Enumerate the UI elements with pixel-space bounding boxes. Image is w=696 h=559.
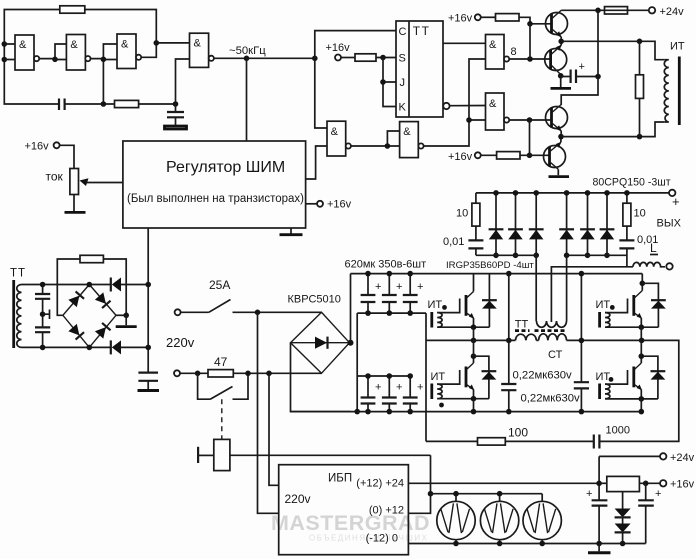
terminal + out	[669, 190, 675, 196]
capacitor 0,01 (left snubber)	[475, 226, 477, 255]
resistor R (+24v)	[605, 7, 628, 14]
gate lead (BR)	[605, 370, 628, 384]
svg-text:L: L	[650, 241, 657, 255]
wire: secondary lead 1	[535, 255, 537, 321]
wire: bridge plus up to cap bank	[350, 274, 352, 343]
ground (PWM bottom)	[290, 228, 292, 235]
wiper arrow	[84, 182, 123, 184]
wire: bridge minus to bottom rail	[291, 343, 351, 412]
wire: node up to TT C pin	[315, 31, 396, 59]
IGBT Q6	[465, 367, 468, 388]
terminal (mains N)	[174, 370, 180, 376]
terminal +16v (bottom)	[660, 480, 666, 486]
resistor R (Q1 base)	[481, 16, 496, 18]
transformer CT core	[535, 329, 566, 332]
wire to resistor 47	[180, 372, 208, 374]
svg-text:+: +	[396, 281, 402, 293]
gate transformer core (BL)	[430, 384, 433, 400]
bridge KBPC5010 diode symbol	[315, 337, 327, 349]
wire: N line to bridge bottom	[233, 372, 321, 374]
IGBT Q8	[632, 367, 635, 388]
emitter/coil bottom lead (TL)	[437, 326, 489, 328]
svg-text:(Был выполнен на транзисторах): (Был выполнен на транзисторах)	[127, 193, 304, 205]
svg-text:&: &	[121, 39, 129, 51]
gate transformer core (TL)	[430, 312, 433, 328]
dashed mechanical link	[221, 399, 223, 439]
IGBT Q7	[632, 295, 635, 316]
wire: bridge left node loop with resistor	[57, 259, 126, 315]
svg-text:ТТ: ТТ	[515, 319, 529, 331]
svg-text:+: +	[417, 281, 423, 293]
wire: rail B/D left vertical	[356, 313, 358, 412]
ground (pot)	[65, 211, 86, 214]
wire: rail C	[357, 375, 410, 377]
svg-text:C: C	[399, 26, 407, 38]
svg-text:IRGP35B60PD -4шт: IRGP35B60PD -4шт	[446, 260, 534, 271]
wire: DD2.2 out up to gates DD1.5/DD1.6 lower inputs	[424, 59, 486, 146]
diode VD5	[580, 190, 595, 258]
svg-text:+16v: +16v	[448, 13, 473, 25]
wire: center tap to L	[551, 267, 633, 322]
svg-text:СТ: СТ	[548, 349, 563, 361]
capacitor 0,22uF (right)	[580, 274, 582, 412]
IGBT cell TL	[428, 274, 497, 344]
wire: DD2.1 out to DD2.2 tied inputs	[351, 131, 400, 146]
bridge KBPC5010 diamond	[291, 312, 350, 373]
capacitor C1 (timing)	[59, 99, 65, 111]
wire: DD1.6 out to Q3 base	[509, 119, 550, 121]
wire: rectifier + rail	[476, 192, 669, 194]
resistor R2 (timing)	[115, 100, 139, 107]
bridge diode (top-left arm)	[68, 291, 84, 307]
svg-text:ИБП: ИБП	[328, 473, 352, 485]
resistor R (Q4 base)	[481, 154, 497, 156]
capacitor C (lower filter)	[35, 327, 50, 332]
gate lead (BL)	[437, 370, 460, 384]
gate DD2.2	[400, 122, 424, 158]
capacitor C8 (bottom bank)	[382, 373, 403, 414]
capacitor 0,22uF (left)	[508, 274, 510, 412]
collector node + diode jog (BR)	[639, 353, 645, 359]
svg-text:ИТ: ИТ	[431, 371, 446, 383]
resistor R (bridge load)	[80, 255, 103, 262]
transistor Q1	[546, 10, 568, 37]
capacitor 1000	[594, 435, 600, 449]
diode (BR freewheel)	[651, 370, 666, 372]
gate transformer coil (BR)	[605, 384, 610, 399]
transistor Q4	[544, 142, 566, 170]
svg-text:ИТ: ИТ	[670, 41, 685, 53]
transformer CT secondary	[537, 321, 567, 327]
emitter/coil bottom lead (TR)	[605, 326, 658, 328]
svg-text:+: +	[375, 382, 381, 394]
svg-text:J: J	[400, 77, 406, 89]
wire: G1 inputs	[4, 44, 15, 60]
wire to bottom rail (BL)	[473, 399, 475, 412]
wire: Q3 emitter / Q4 collector node	[560, 131, 562, 143]
svg-text:0,01: 0,01	[443, 236, 464, 248]
gate DD1.3	[117, 34, 141, 69]
node: caps midpoint with chassis tick	[40, 311, 46, 317]
transformer TT secondary coil	[17, 285, 26, 348]
svg-text:ИТ: ИТ	[428, 299, 443, 311]
svg-text:10: 10	[456, 208, 468, 220]
wire: 0 output / bottom rail	[408, 543, 645, 545]
svg-text:+: +	[579, 61, 585, 73]
box: PWM regulator	[123, 141, 306, 228]
svg-text:ИТ: ИТ	[596, 299, 611, 311]
wire to mid rail (TL)	[473, 327, 475, 340]
gate transformer coil (TR)	[605, 313, 610, 328]
IGBT cell BL	[431, 340, 497, 414]
resistor R (S pull-up)	[341, 57, 355, 59]
gate lead (TL)	[437, 299, 460, 313]
wire: 220v verticals to UPS	[258, 312, 279, 513]
svg-text:(+12) +24: (+12) +24	[356, 478, 404, 490]
wire: left rail down to RC line	[4, 44, 59, 104]
ground (Q2)	[560, 76, 562, 87]
capacitor (reg input)	[592, 500, 608, 505]
diode (BL freewheel)	[482, 370, 497, 372]
diode (top rail, points left)	[112, 278, 121, 292]
fan M3	[523, 494, 561, 547]
wire: +12 output to fans rail	[408, 455, 430, 513]
wire: middle rail (right part)	[567, 339, 643, 341]
transformer CT primary	[539, 334, 567, 341]
svg-text:620мк 350в-6шт: 620мк 350в-6шт	[345, 259, 427, 271]
wire: fans + rail	[431, 493, 543, 495]
resistor 10 (left snubber)	[475, 193, 477, 203]
wire: G1 out to G2 in	[39, 44, 66, 60]
capacitor C (decoupling) with +	[561, 76, 598, 78]
wire: base tie Q1/Q2	[529, 24, 531, 59]
diode jog (TR)	[642, 283, 658, 327]
bridge diamond (TT)	[63, 285, 116, 348]
svg-text:+: +	[375, 281, 381, 293]
wire: PWM bottom to TT rectifier rail	[147, 228, 149, 373]
svg-text:S: S	[399, 53, 406, 65]
capacitor C4 (top bank)	[361, 271, 382, 316]
gate lead (TR)	[605, 299, 628, 313]
relay bypass contact	[198, 373, 248, 399]
emitter/coil bottom lead (BL)	[437, 398, 489, 400]
wire: TT bottom rail	[26, 346, 148, 348]
wire: secondary lead 2	[566, 255, 568, 321]
svg-text:+24v: +24v	[670, 452, 695, 464]
transformer TT core	[12, 280, 15, 348]
bridge diode (bottom-left arm)	[68, 324, 84, 340]
capacitor C7 (bottom bank)	[361, 373, 382, 414]
gate transformer core (BR)	[598, 384, 601, 400]
gate transformer core (TR)	[598, 312, 601, 328]
collector node + diode jog (BL)	[471, 353, 477, 359]
svg-text:220v: 220v	[166, 335, 195, 350]
svg-text:Регулятор ШИМ: Регулятор ШИМ	[166, 159, 285, 176]
wire: middle rail (left part)	[426, 339, 516, 341]
wire: L line to bridge top	[258, 311, 322, 313]
gate transformer coil (TL)	[437, 313, 442, 328]
gate DD1.1	[15, 35, 39, 70]
capacitor C (to ground, bottom)	[138, 373, 158, 381]
capacitor C2 to ground	[167, 112, 184, 117]
transformer TT2 (current) coil on rail	[516, 334, 537, 340]
svg-text:+16v: +16v	[326, 42, 351, 54]
flip-flop TT box	[396, 21, 443, 117]
wire to potentiometer	[60, 145, 74, 168]
resistor 10 (right snubber)	[626, 193, 628, 203]
ground (bottom rail)	[598, 544, 600, 552]
relay coil K1	[214, 439, 230, 470]
svg-text:ТТ: ТТ	[10, 268, 26, 280]
TT inverted output bubble	[443, 103, 449, 109]
IGBT Q5	[465, 295, 468, 316]
wire to bottom rail (BR)	[640, 399, 642, 412]
regulator 7812 box	[599, 482, 607, 484]
wire: +24 rail right vertical	[561, 10, 598, 105]
svg-text:+: +	[417, 382, 423, 394]
gate DD1.2	[66, 35, 90, 71]
terminal +16v (Q4 base)	[475, 152, 481, 158]
terminal (mains L)	[175, 309, 181, 315]
gate DD2.1	[327, 121, 351, 156]
svg-text:&: &	[194, 38, 202, 50]
diode VD1	[489, 190, 504, 258]
IGBT cell TR	[596, 274, 666, 344]
wire: base tie Q3/Q4	[529, 120, 531, 155]
capacitor (reg output)	[645, 483, 647, 500]
svg-text:ИТ: ИТ	[596, 371, 611, 383]
diode VD3	[529, 190, 544, 258]
diode (TR freewheel)	[651, 299, 666, 301]
svg-text:ток: ток	[46, 170, 64, 184]
node: G1 input junctions	[2, 41, 8, 47]
svg-text:100: 100	[508, 426, 528, 440]
diode (reg lift 1)	[622, 492, 624, 509]
wire: rectifier AC rail left half	[476, 254, 536, 256]
wire: G4 output node 50kHz	[214, 57, 315, 59]
svg-text:&: &	[489, 39, 497, 51]
wire: middle rail right jog down to snubber	[599, 340, 678, 441]
svg-text:1000: 1000	[606, 425, 630, 437]
wire: rail B	[357, 312, 426, 314]
terminal +16v (Q1 base)	[475, 14, 481, 20]
diode VD2	[508, 190, 523, 258]
watermark MASTERGRAD	[271, 511, 430, 543]
bridge diode (top-right arm)	[95, 292, 111, 308]
svg-text:MASTERGRAD: MASTERGRAD	[271, 511, 430, 535]
capacitor C6 (top bank)	[403, 271, 424, 316]
svg-text:(-12) 0: (-12) 0	[366, 533, 398, 545]
wire: feedback top rail	[4, 10, 156, 45]
svg-text:10: 10	[634, 208, 646, 220]
diode (TL freewheel)	[488, 274, 490, 328]
svg-text:+16v: +16v	[25, 141, 50, 153]
wire: S-J-K tie	[383, 58, 396, 107]
wire: RC bottom line	[65, 103, 176, 105]
transformer IT core	[678, 57, 681, 126]
svg-text:47: 47	[214, 355, 228, 369]
svg-text:0,22мк630v: 0,22мк630v	[521, 393, 581, 405]
wire: G3 out up to feedback node, to G4 upper in	[141, 43, 189, 57]
wire: G2 out to G3 in, down to RC	[91, 44, 118, 104]
svg-text:+: +	[396, 382, 402, 394]
wire: node down to gate DD2.1 upper input	[315, 58, 327, 128]
wire: Q1 emitter node	[560, 37, 562, 46]
terminal +16v (PWM right)	[306, 203, 317, 205]
wire: node to PWM box top	[246, 58, 248, 141]
wire to mid rail (TR)	[640, 327, 642, 340]
svg-text:+: +	[586, 488, 592, 500]
wire: PWM out to gate DD2.1 lower input	[306, 146, 327, 179]
wire: +310v top rail (A)	[351, 273, 643, 275]
resistor 47	[208, 370, 233, 377]
capacitor C9 (bottom bank)	[403, 373, 424, 414]
svg-text:25А: 25А	[209, 278, 230, 292]
node: bridge right to ground	[116, 314, 126, 316]
svg-text:~50кГц: ~50кГц	[229, 45, 266, 57]
diode VD4	[559, 190, 574, 258]
svg-text:+16v: +16v	[670, 479, 695, 491]
resistor R1 (feedback)	[60, 6, 85, 13]
svg-text:&: &	[403, 126, 411, 138]
svg-text:+: +	[655, 488, 661, 500]
switch 25A	[181, 300, 258, 313]
svg-text:ТТ: ТТ	[413, 24, 431, 38]
fan M1	[437, 491, 475, 546]
svg-text:+16v: +16v	[327, 199, 352, 211]
svg-text:+16v: +16v	[448, 151, 473, 163]
node: Q2 emitter	[558, 73, 564, 79]
resistor R (across transformer)	[639, 41, 641, 136]
wire: snubber line	[426, 440, 594, 442]
svg-text:+: +	[672, 194, 680, 209]
capacitor C (upper filter)	[35, 294, 50, 299]
svg-text:&: &	[70, 39, 78, 51]
gate DD1.6	[486, 93, 510, 130]
diode VD6	[600, 190, 615, 258]
terminal +24v	[649, 7, 655, 13]
wire: relay coil to +12 line	[230, 454, 431, 456]
emitter/coil bottom lead (BR)	[605, 398, 658, 400]
wire: rail B to snubber line	[425, 313, 427, 441]
wire: bottom rail D	[291, 411, 643, 413]
wire: rectifier AC rail right half	[567, 254, 627, 256]
gate transformer coil (BL)	[437, 384, 442, 399]
wire: rail gap	[536, 339, 538, 341]
terminal - out	[666, 263, 672, 269]
svg-text:8: 8	[511, 46, 517, 58]
svg-text:ВЫХ: ВЫХ	[657, 218, 682, 230]
transistor Q2	[545, 45, 567, 75]
gate DD1.5	[486, 35, 510, 70]
fan M2	[480, 491, 518, 546]
diode (reg lift 2)	[622, 517, 624, 523]
wire: midpoint to output transformer top	[561, 41, 665, 59]
svg-text:K: K	[399, 102, 407, 114]
potentiometer R "ток"	[70, 169, 79, 195]
top rail corner into collector (TR)	[641, 274, 643, 291]
IGBT cell BR	[596, 340, 666, 414]
capacitor C5 (top bank)	[382, 271, 403, 316]
svg-text:80CPQ150 -3шт: 80CPQ150 -3шт	[593, 177, 671, 189]
svg-text:&: &	[19, 39, 27, 51]
terminal +16v (left pot)	[54, 142, 60, 148]
svg-text:+24v: +24v	[660, 6, 685, 18]
ground (Q4)	[557, 169, 559, 175]
wire: DD1.5 out to Q2 base	[509, 58, 549, 60]
gate DD1.4	[190, 33, 214, 67]
capacitor 0,01 (right snubber)	[626, 226, 628, 267]
bridge diode (bottom-right arm)	[95, 323, 111, 339]
terminal +24v (bottom)	[599, 455, 660, 457]
resistor 100	[478, 438, 506, 445]
terminal +16v (TT S pin)	[335, 55, 341, 61]
wire: +24 output	[408, 482, 599, 484]
wire: midpoint to output transformer bottom	[561, 122, 665, 137]
wire: G4 lower input from RC node	[176, 59, 190, 104]
node: rails join PWM feed line	[145, 282, 151, 288]
transistor Q3	[546, 105, 568, 132]
svg-text:220v: 220v	[285, 492, 311, 506]
svg-text:0,22мк630v: 0,22мк630v	[513, 370, 573, 382]
wire: +24 down to regulator	[598, 456, 600, 500]
svg-text:КВРС5010: КВРС5010	[288, 294, 341, 306]
diode (bottom rail, points left)	[112, 340, 121, 354]
box UPS	[279, 465, 409, 555]
wire: TT top rail	[26, 284, 148, 286]
svg-text:(0) +12: (0) +12	[369, 505, 404, 517]
svg-text:&: &	[489, 98, 497, 110]
wire: TT Q output to DD1.5	[443, 42, 486, 44]
ground (oscillator)	[165, 126, 187, 129]
svg-text:&: &	[331, 126, 339, 138]
wire pot to ground	[73, 195, 75, 212]
wire: Q1 collector to +24v rail	[561, 9, 649, 11]
